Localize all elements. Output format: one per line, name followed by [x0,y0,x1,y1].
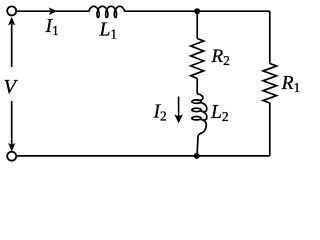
resistor R1 [263,64,277,104]
inductor L2 [197,94,203,101]
wire middle branch bottom lead [197,137,198,156]
wire right branch lower lead [269,103,271,156]
terminal bottom-left [7,152,16,161]
wire top from node A to right corner [197,10,270,12]
wire right branch upper lead [269,11,271,63]
wire top from L1 to node A [127,10,198,12]
wire bottom from right corner to node B [197,155,270,157]
arrowhead V down [8,143,15,152]
arrowhead I1 [49,7,57,15]
wire bottom from node B to source terminal [16,155,197,157]
wire left source upper arrow line [11,24,13,67]
inductor L1 [87,6,127,17]
wire top from source terminal to node A [16,10,87,12]
wire between R2 and L2 [196,78,198,94]
node B junction dot [194,153,200,159]
wire middle branch top lead [196,11,198,38]
node A junction dot [194,8,200,14]
arrowhead V up [8,17,15,26]
wire left source lower arrow line [11,101,13,145]
arrowhead I2 [174,114,183,123]
terminal top-left [7,6,16,15]
wire I2 arrow line [178,97,180,117]
resistor R2 [191,39,204,79]
